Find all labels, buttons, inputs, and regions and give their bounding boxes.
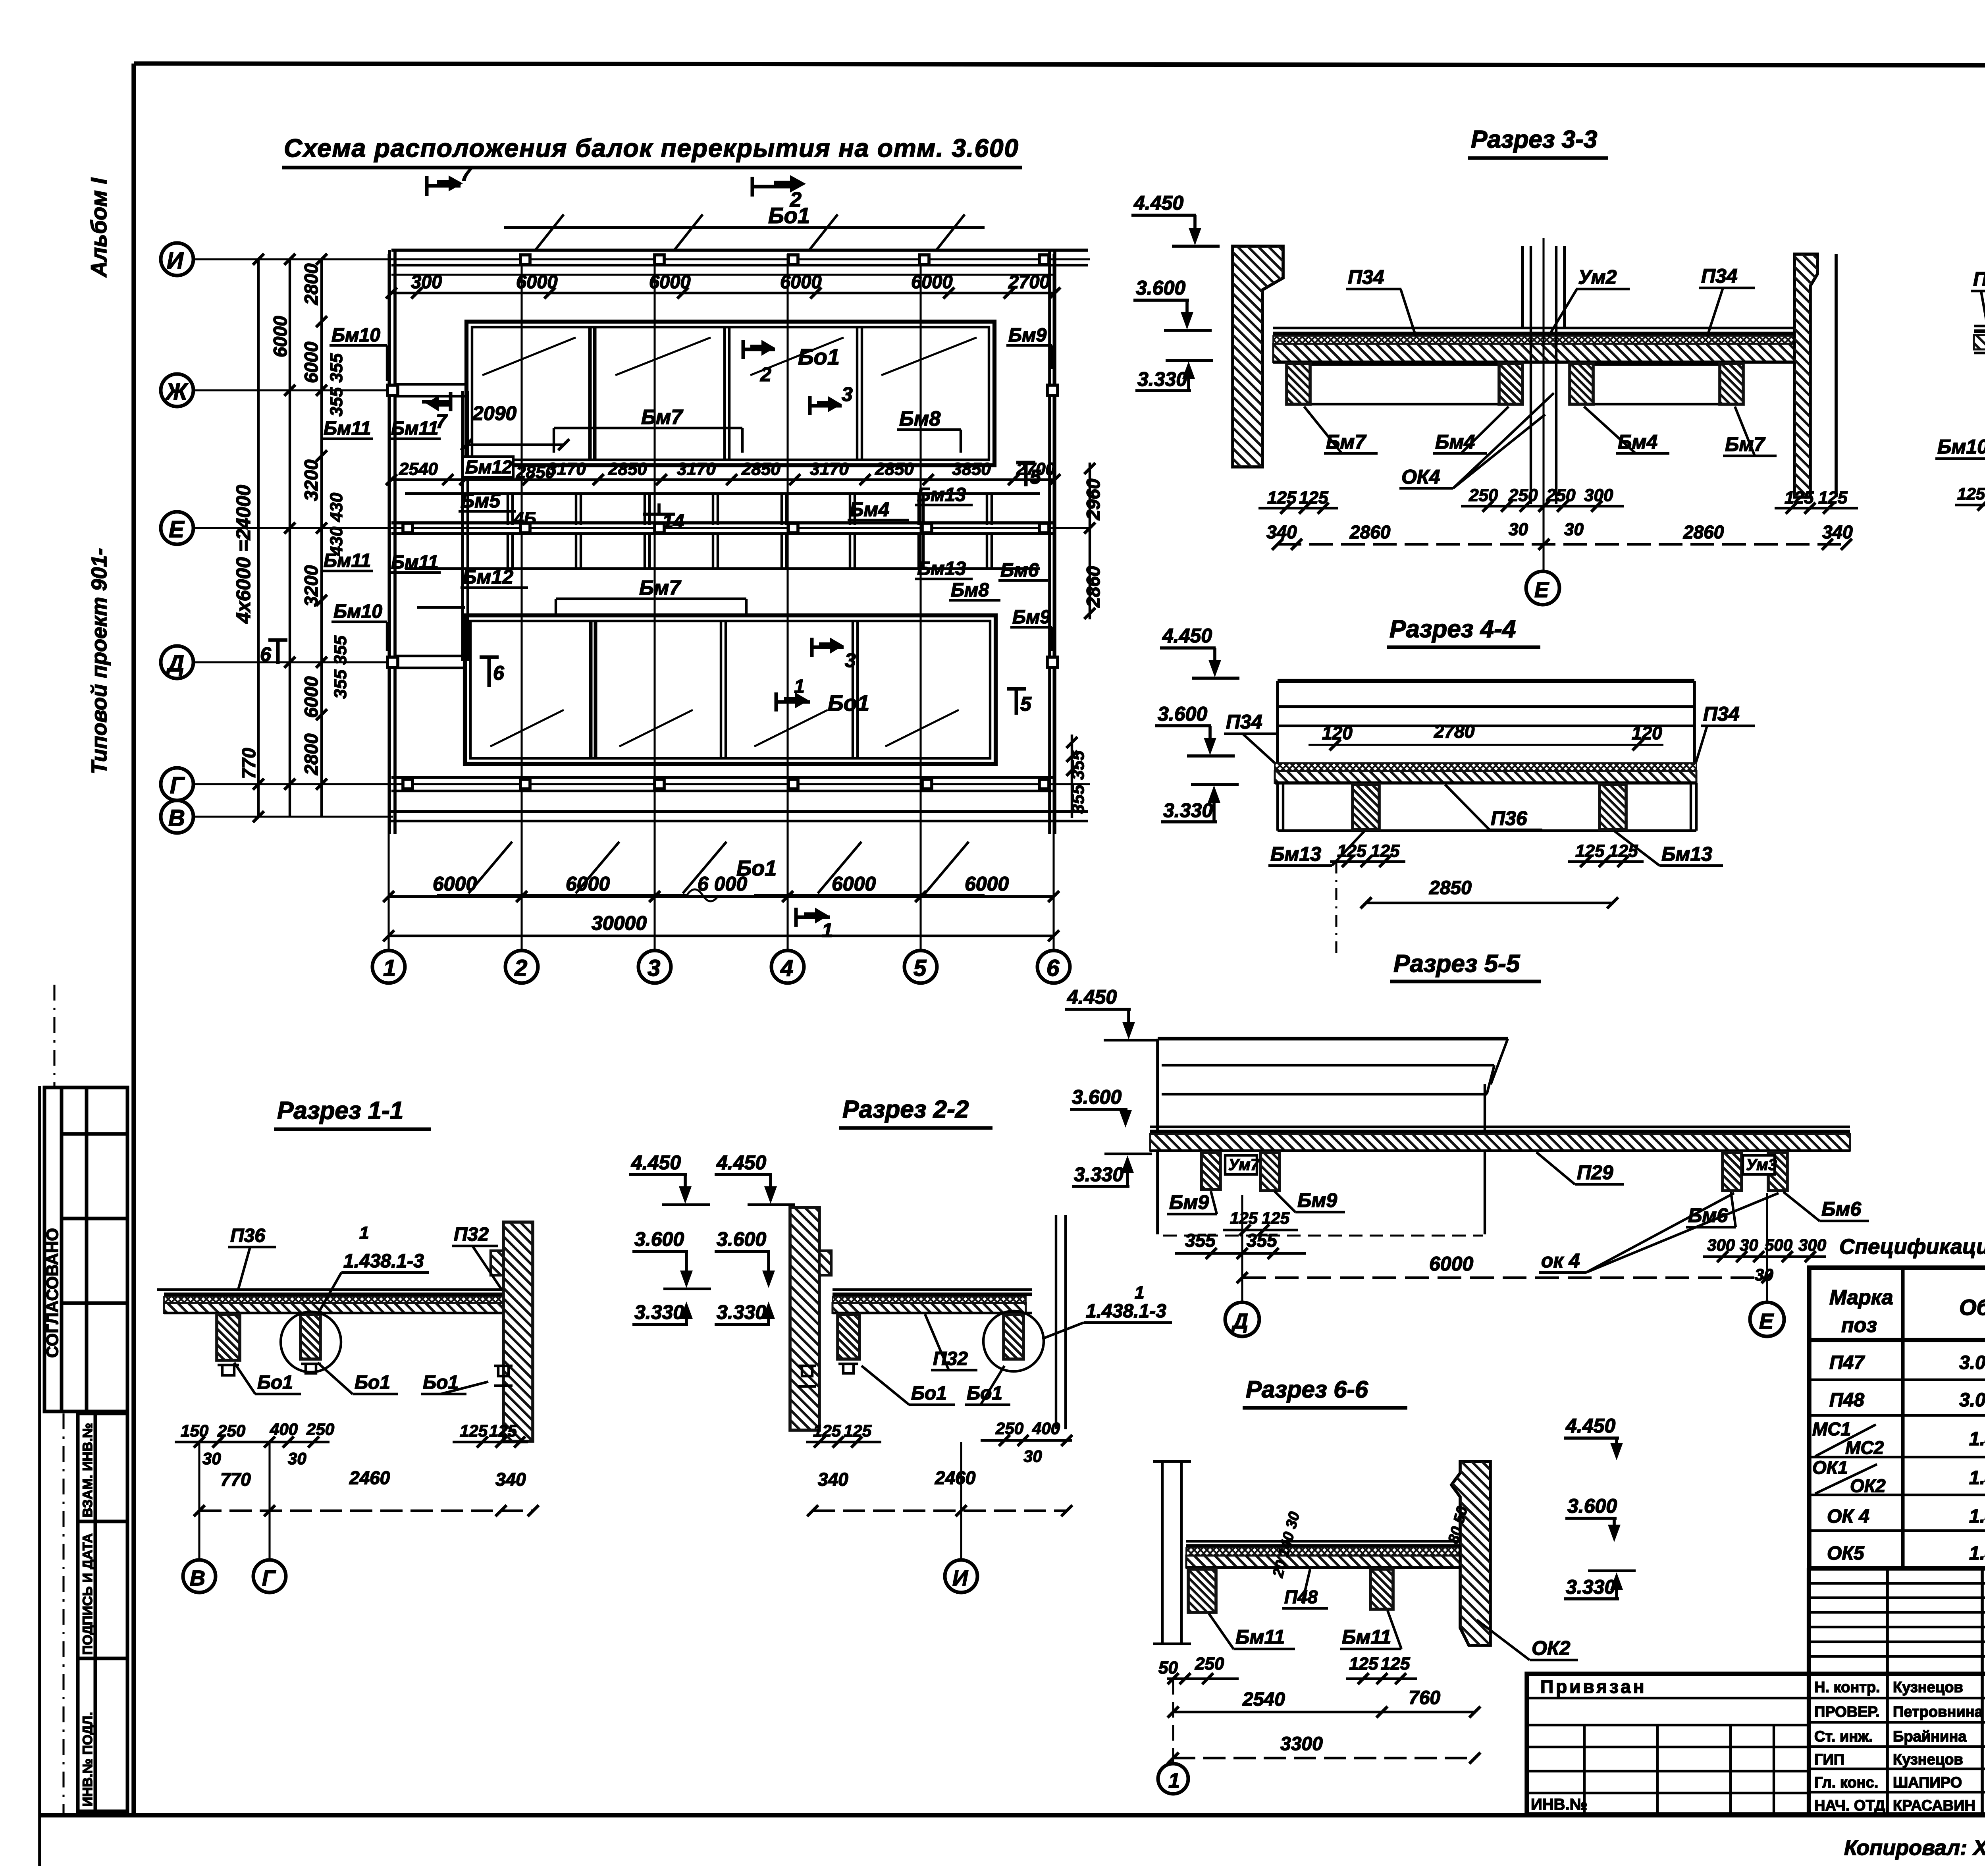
svg-text:6000: 6000 xyxy=(433,873,477,895)
upper hall rectangle xyxy=(466,322,994,465)
svg-text:125: 125 xyxy=(1381,1654,1410,1674)
box СОГЛАСОВАНО xyxy=(44,1087,127,1411)
svg-text:Бм6: Бм6 xyxy=(1000,560,1039,581)
svg-text:2860: 2860 xyxy=(1349,522,1391,542)
svg-text:Разрез 1-1: Разрез 1-1 xyxy=(277,1097,403,1124)
svg-text:4.450: 4.450 xyxy=(1565,1415,1615,1437)
label Бо1 in lower rect with flag 1 xyxy=(776,692,810,711)
bubble В (1-1) xyxy=(198,1442,200,1560)
svg-text:5: 5 xyxy=(1030,466,1041,488)
bubble Д (5-5) xyxy=(1241,1195,1243,1302)
svg-text:120: 120 xyxy=(1632,723,1662,743)
svg-text:340: 340 xyxy=(1822,522,1853,542)
svg-text:1: 1 xyxy=(1135,1283,1144,1302)
svg-text:П34: П34 xyxy=(1701,265,1738,287)
svg-text:Бм9: Бм9 xyxy=(1008,325,1046,346)
svg-text:30: 30 xyxy=(1564,520,1584,539)
svg-text:1.438.1-3: 1.438.1-3 xyxy=(1969,1467,1985,1488)
svg-text:4.450: 4.450 xyxy=(1067,986,1117,1008)
svg-text:Бм9: Бм9 xyxy=(1169,1191,1209,1213)
left wall (2-2) xyxy=(790,1207,819,1430)
beam at wall (2-2) xyxy=(838,1315,860,1359)
svg-text:ПРОВЕР.: ПРОВЕР. xyxy=(1814,1704,1880,1720)
svg-text:125: 125 xyxy=(489,1421,517,1440)
svg-text:НАЧ. ОТД.: НАЧ. ОТД. xyxy=(1814,1797,1889,1814)
label box Ум7 (5-5) xyxy=(1225,1155,1257,1174)
svg-text:300: 300 xyxy=(411,271,442,292)
left beam (1-1) xyxy=(217,1315,240,1360)
svg-text:Бм13: Бм13 xyxy=(917,558,966,579)
svg-text:Разрез 6-6: Разрез 6-6 xyxy=(1246,1376,1368,1403)
left column (6-6) xyxy=(1153,1461,1191,1644)
svg-text:2850: 2850 xyxy=(875,459,914,479)
svg-text:1: 1 xyxy=(383,955,396,981)
svg-text:125: 125 xyxy=(1267,488,1297,507)
svg-text:355 355: 355 355 xyxy=(327,353,346,416)
grid bubble И xyxy=(161,243,193,276)
svg-text:355 355: 355 355 xyxy=(331,635,350,699)
slab (6-6) xyxy=(1186,1541,1469,1568)
svg-text:Бм10: Бм10 xyxy=(1937,436,1985,458)
svg-text:30: 30 xyxy=(1509,520,1528,539)
svg-text:СОГЛАСОВАНО: СОГЛАСОВАНО xyxy=(43,1228,62,1358)
svg-text:2540: 2540 xyxy=(399,459,438,479)
svg-text:Марка: Марка xyxy=(1829,1286,1893,1309)
svg-text:ОК1: ОК1 xyxy=(1812,1457,1848,1478)
axis В xyxy=(193,816,393,817)
svg-text:2860: 2860 xyxy=(1683,522,1724,542)
svg-text:Ст. инж.: Ст. инж. xyxy=(1814,1728,1873,1745)
svg-text:Разрез 3-3: Разрез 3-3 xyxy=(1471,126,1597,153)
section flag 5 right xyxy=(1007,689,1026,715)
svg-text:125: 125 xyxy=(1299,488,1328,507)
svg-text:Петровнина: Петровнина xyxy=(1893,1704,1983,1720)
svg-text:2850: 2850 xyxy=(608,459,647,479)
svg-text:125: 125 xyxy=(1785,488,1814,507)
svg-text:П34: П34 xyxy=(1348,266,1384,288)
svg-text:Бо1: Бо1 xyxy=(911,1383,947,1404)
svg-text:Бо1: Бо1 xyxy=(768,203,810,228)
plan left wall xyxy=(389,250,1055,834)
svg-text:2460: 2460 xyxy=(349,1467,390,1488)
svg-text:340: 340 xyxy=(495,1469,526,1490)
svg-text:3200: 3200 xyxy=(301,459,322,501)
svg-text:ИНВ.№ ПОДЛ.: ИНВ.№ ПОДЛ. xyxy=(80,1712,95,1807)
svg-text:П32: П32 xyxy=(933,1348,968,1369)
svg-text:300: 300 xyxy=(1707,1236,1735,1254)
svg-text:ОК2: ОК2 xyxy=(1850,1475,1886,1496)
svg-text:Бм8: Бм8 xyxy=(951,580,989,601)
svg-text:П48: П48 xyxy=(1829,1390,1864,1411)
svg-text:Бм11: Бм11 xyxy=(1342,1626,1391,1648)
svg-text:6: 6 xyxy=(1046,955,1060,981)
svg-text:125: 125 xyxy=(1370,841,1400,861)
column axis verticals xyxy=(387,254,389,952)
middle dimension row xyxy=(391,478,1056,481)
right wall (1-1) xyxy=(503,1222,533,1441)
svg-text:Бо1: Бо1 xyxy=(828,690,869,715)
svg-text:125: 125 xyxy=(1957,484,1985,503)
svg-text:120: 120 xyxy=(1322,723,1353,743)
Е band column squares xyxy=(403,523,1049,533)
svg-text:300: 300 xyxy=(1798,1236,1826,1254)
svg-text:ОК4: ОК4 xyxy=(1401,466,1440,488)
detail circle with beam (1-1) xyxy=(301,1315,320,1359)
svg-text:2850: 2850 xyxy=(741,459,781,479)
box ВЗАМ ИНВ xyxy=(78,1413,127,1521)
left dimension strings xyxy=(258,259,322,817)
svg-text:30: 30 xyxy=(202,1449,221,1468)
slab (5-5) xyxy=(1150,1127,1850,1151)
beam Бм4 left (3-3) xyxy=(1499,364,1522,404)
axis Е xyxy=(193,527,1090,529)
svg-text:Обозначение: Обозначение xyxy=(1959,1295,1985,1320)
bubble Е (3-3) xyxy=(1526,571,1559,605)
plan right wall xyxy=(1048,250,1051,834)
svg-text:6000: 6000 xyxy=(301,676,322,718)
column bubble 2 xyxy=(505,951,538,983)
svg-text:3.006-2 вып.II-2: 3.006-2 вып.II-2 xyxy=(1959,1352,1985,1373)
svg-text:3: 3 xyxy=(648,955,660,981)
svg-text:2: 2 xyxy=(760,363,771,386)
svg-text:Брайнина: Брайнина xyxy=(1893,1728,1967,1745)
svg-text:Типовой проект 901-: Типовой проект 901- xyxy=(87,548,111,774)
svg-text:Бм4: Бм4 xyxy=(1435,431,1475,453)
svg-text:Е: Е xyxy=(1534,578,1549,602)
diagonals in bays xyxy=(482,337,576,375)
section flag 3 in rect xyxy=(810,396,842,415)
svg-text:4.450: 4.450 xyxy=(631,1151,681,1174)
svg-text:30000: 30000 xyxy=(592,912,647,934)
svg-text:4.450: 4.450 xyxy=(716,1151,766,1174)
svg-text:4: 4 xyxy=(780,955,793,981)
svg-text:П48: П48 xyxy=(1284,1587,1318,1607)
grid bubble Е xyxy=(161,512,193,544)
section flag 7 left xyxy=(422,392,451,411)
svg-text:ШАПИРО: ШАПИРО xyxy=(1893,1774,1962,1791)
grid bubble В xyxy=(161,800,193,833)
svg-text:4.450: 4.450 xyxy=(1162,625,1212,647)
svg-text:ок 4: ок 4 xyxy=(1541,1249,1580,1272)
section flag 3 lower xyxy=(812,638,844,657)
svg-text:П'3: П'3 xyxy=(1973,268,1985,290)
slab (3-3) xyxy=(1273,328,1809,362)
slab (1-1) xyxy=(157,1290,510,1313)
svg-text:Бм10: Бм10 xyxy=(331,325,380,346)
svg-text:125: 125 xyxy=(813,1421,841,1440)
svg-text:2: 2 xyxy=(514,955,527,981)
svg-text:МС2: МС2 xyxy=(1845,1437,1884,1458)
corridor beam at Ж xyxy=(396,384,465,396)
svg-text:Бо1: Бо1 xyxy=(967,1383,1002,1404)
svg-text:770: 770 xyxy=(220,1469,251,1490)
svg-text:2800: 2800 xyxy=(301,263,322,305)
Г band column squares xyxy=(403,779,1049,789)
beam Бм4 right (3-3) xyxy=(1570,364,1593,404)
svg-text:125: 125 xyxy=(460,1421,488,1440)
bubble Е (5-5) xyxy=(1766,1193,1768,1302)
longitudinal beam (4-4) xyxy=(1278,681,1694,763)
beams Бм6 (5-5) xyxy=(1723,1153,1742,1191)
svg-text:6000: 6000 xyxy=(649,271,691,292)
svg-text:Г: Г xyxy=(262,1566,276,1590)
box ПОДПИСЬ И ДАТА xyxy=(78,1521,127,1658)
svg-text:3.330: 3.330 xyxy=(634,1301,684,1323)
beam lattice upper (between mid dims and Е) xyxy=(405,494,1040,525)
svg-text:770: 770 xyxy=(238,748,259,779)
svg-text:250: 250 xyxy=(1195,1654,1224,1674)
svg-text:3.330: 3.330 xyxy=(1137,368,1187,390)
svg-text:3170: 3170 xyxy=(547,459,586,479)
svg-text:Бм11: Бм11 xyxy=(391,418,438,439)
svg-text:Бм7: Бм7 xyxy=(639,576,681,600)
И band beam Бо1 xyxy=(391,250,1088,275)
bottom dim row 30000 xyxy=(389,935,1054,937)
svg-text:ОК2: ОК2 xyxy=(1532,1637,1571,1659)
svg-text:3170: 3170 xyxy=(810,459,849,479)
corridor beam at Д xyxy=(396,656,465,668)
svg-text:3.330: 3.330 xyxy=(1163,799,1213,821)
svg-text:6000: 6000 xyxy=(911,271,953,292)
svg-text:6 000: 6 000 xyxy=(698,873,747,895)
svg-text:2090: 2090 xyxy=(472,402,516,424)
svg-text:6000: 6000 xyxy=(832,873,876,895)
И band column squares xyxy=(520,255,1049,264)
svg-text:3.600: 3.600 xyxy=(1136,277,1185,299)
section flag 2 top xyxy=(752,175,806,197)
section flag 1 bottom xyxy=(796,908,830,927)
svg-text:Бм6: Бм6 xyxy=(1821,1198,1862,1220)
svg-text:430 430: 430 430 xyxy=(327,492,346,556)
svg-text:Ум3: Ум3 xyxy=(1746,1156,1777,1174)
svg-text:Гл. конс.: Гл. конс. xyxy=(1814,1774,1878,1791)
svg-text:Схема расположения балок перек: Схема расположения балок перекрытия на о… xyxy=(284,134,1018,162)
svg-text:400: 400 xyxy=(1032,1419,1060,1438)
wall column squares xyxy=(387,385,1058,667)
svg-text:1.438.1-3: 1.438.1-3 xyxy=(1969,1543,1985,1564)
svg-text:Альбом I: Альбом I xyxy=(86,177,111,278)
svg-text:Д: Д xyxy=(166,651,184,677)
axis Г xyxy=(193,783,1090,785)
svg-text:1.438.1-3: 1.438.1-3 xyxy=(1969,1429,1985,1450)
svg-text:Привязан: Привязан xyxy=(1540,1676,1647,1697)
svg-text:30: 30 xyxy=(1740,1236,1758,1254)
svg-text:ИНВ.№: ИНВ.№ xyxy=(1531,1796,1587,1813)
svg-text:6000: 6000 xyxy=(516,271,558,292)
svg-text:3170: 3170 xyxy=(677,459,716,479)
center column (3-3) xyxy=(1522,238,1565,571)
svg-text:Разрез 4-4: Разрез 4-4 xyxy=(1389,615,1516,643)
top dimension row xyxy=(391,292,1056,294)
svg-text:Кузнецов: Кузнецов xyxy=(1893,1751,1963,1768)
svg-text:Бм4: Бм4 xyxy=(850,498,889,521)
beam Бм7 right (3-3) xyxy=(1720,364,1743,404)
section flag 2 in rect xyxy=(743,340,775,359)
under-slab outline (4-4) xyxy=(1278,783,1696,831)
svg-text:Копировал: Хюппенен: Копировал: Хюппенен xyxy=(1844,1836,1985,1860)
svg-text:Бм9: Бм9 xyxy=(1012,607,1050,628)
Бо1 line above И with slashes xyxy=(504,214,985,249)
beams Бм11 (6-6) xyxy=(1188,1569,1216,1612)
svg-text:760: 760 xyxy=(1409,1687,1440,1708)
svg-text:Бм13: Бм13 xyxy=(1270,843,1321,865)
svg-text:ПОДПИСЬ И ДАТА: ПОДПИСЬ И ДАТА xyxy=(80,1533,95,1655)
label 14 center with flag xyxy=(643,503,675,514)
svg-text:3.600: 3.600 xyxy=(1072,1086,1122,1108)
svg-text:6: 6 xyxy=(260,643,272,665)
beam Бм13 right (4-4) xyxy=(1600,785,1626,829)
svg-text:И: И xyxy=(167,248,184,274)
svg-text:3.600: 3.600 xyxy=(1158,703,1207,725)
bottom dim row 6000s xyxy=(389,895,1054,898)
svg-text:2800: 2800 xyxy=(301,733,322,775)
svg-text:В: В xyxy=(190,1566,205,1590)
column bubble 1 xyxy=(372,951,405,983)
section flag 6 in rect xyxy=(480,657,499,687)
svg-text:1.438.1-3: 1.438.1-3 xyxy=(1969,1506,1985,1527)
bubble И (2-2) xyxy=(960,1442,962,1560)
lower hall rectangle xyxy=(465,615,996,764)
column bubble 5 xyxy=(904,951,937,983)
svg-text:П29: П29 xyxy=(1577,1161,1613,1184)
svg-text:Бо1: Бо1 xyxy=(257,1372,293,1393)
bubble Г (1-1) xyxy=(268,1442,270,1560)
svg-text:2860: 2860 xyxy=(1083,566,1104,608)
svg-text:2700: 2700 xyxy=(1008,271,1050,292)
section flag 5 upper right xyxy=(1016,463,1035,486)
svg-text:125: 125 xyxy=(1262,1209,1290,1227)
column bubble 6 xyxy=(1037,951,1070,983)
svg-text:6000: 6000 xyxy=(270,316,291,357)
svg-text:2: 2 xyxy=(790,188,802,211)
svg-text:Ум7: Ум7 xyxy=(1228,1156,1260,1174)
grid bubble Д xyxy=(161,646,193,679)
slab (4-4) xyxy=(1275,763,1696,771)
beam opening row (3-3) xyxy=(1310,364,1720,404)
Бо1 band below В with slashes xyxy=(437,842,985,901)
svg-text:1.438.1-3: 1.438.1-3 xyxy=(1086,1301,1166,1322)
svg-text:355: 355 xyxy=(1185,1230,1216,1251)
svg-text:ВЗАМ. ИНВ.№: ВЗАМ. ИНВ.№ xyxy=(80,1423,95,1517)
svg-text:Кузнецов: Кузнецов xyxy=(1893,1679,1963,1696)
svg-text:3850: 3850 xyxy=(952,459,991,479)
svg-text:П36: П36 xyxy=(230,1225,265,1246)
axis И xyxy=(193,258,1090,260)
box ИНВ № ПОДЛ xyxy=(78,1658,127,1811)
svg-text:30: 30 xyxy=(288,1449,306,1468)
right thin wall (2-2) xyxy=(1056,1215,1066,1429)
svg-text:Бм13: Бм13 xyxy=(1661,843,1712,865)
svg-text:250: 250 xyxy=(306,1420,334,1438)
spec table grid xyxy=(1809,1268,1985,1568)
slab (2-2) xyxy=(833,1290,1032,1313)
svg-text:Разрез 2-2: Разрез 2-2 xyxy=(842,1096,969,1123)
svg-text:6000: 6000 xyxy=(301,341,322,383)
svg-text:4х6000 =24000: 4х6000 =24000 xyxy=(232,485,254,624)
Е band xyxy=(391,523,1055,534)
svg-text:7: 7 xyxy=(461,162,473,185)
svg-text:Бм11: Бм11 xyxy=(324,418,371,439)
svg-text:Бм11: Бм11 xyxy=(324,550,371,571)
svg-text:4.450: 4.450 xyxy=(1133,192,1183,214)
svg-text:Бо1: Бо1 xyxy=(355,1372,390,1393)
svg-text:250: 250 xyxy=(1546,486,1576,505)
svg-text:П47: П47 xyxy=(1829,1352,1865,1373)
svg-text:МС1: МС1 xyxy=(1812,1419,1851,1439)
svg-text:3200: 3200 xyxy=(301,565,322,607)
portal beam (5-5) xyxy=(1158,1039,1508,1236)
svg-text:125: 125 xyxy=(1609,841,1638,861)
svg-text:125: 125 xyxy=(1230,1209,1258,1227)
svg-text:3: 3 xyxy=(842,383,853,405)
axis Ж xyxy=(193,389,395,391)
svg-text:Д: Д xyxy=(1231,1309,1248,1333)
svg-text:Бм5: Бм5 xyxy=(461,490,501,512)
svg-text:Бм10: Бм10 xyxy=(333,601,382,622)
svg-text:1: 1 xyxy=(359,1223,369,1243)
svg-text:125: 125 xyxy=(844,1421,872,1440)
svg-text:3.600: 3.600 xyxy=(1567,1495,1617,1517)
svg-text:Бм12: Бм12 xyxy=(463,566,513,588)
svg-text:1: 1 xyxy=(794,676,805,697)
svg-text:Спецификация элементов к схеме: Спецификация элементов к схеме расположе… xyxy=(1839,1235,1985,1259)
svg-text:355: 355 xyxy=(1247,1230,1278,1251)
svg-text:340: 340 xyxy=(818,1469,848,1490)
column bubble 3 xyxy=(638,951,671,983)
svg-text:В: В xyxy=(168,805,185,831)
svg-text:Бм8: Бм8 xyxy=(899,407,940,430)
svg-text:П34: П34 xyxy=(1226,711,1262,733)
svg-text:1.438.1-3: 1.438.1-3 xyxy=(343,1251,424,1272)
svg-text:1: 1 xyxy=(1168,1769,1180,1792)
bubble 1 (6-6) xyxy=(1172,1679,1174,1763)
svg-text:поз: поз xyxy=(1841,1314,1877,1337)
svg-text:3.330: 3.330 xyxy=(1074,1163,1124,1186)
beam lattice lower (between Е and lower rect) xyxy=(405,534,1040,607)
svg-text:И: И xyxy=(952,1566,968,1590)
svg-text:500: 500 xyxy=(1765,1236,1792,1254)
svg-text:6000: 6000 xyxy=(1429,1253,1473,1275)
svg-text:Е: Е xyxy=(1759,1309,1774,1333)
beams Бм9 (5-5) xyxy=(1201,1153,1220,1190)
svg-text:Н. контр.: Н. контр. xyxy=(1814,1679,1880,1696)
svg-text:2540: 2540 xyxy=(1242,1689,1285,1710)
svg-text:Бм13: Бм13 xyxy=(917,484,966,505)
grid bubble Ж xyxy=(161,374,193,407)
svg-text:1: 1 xyxy=(822,919,833,941)
svg-text:Бм12: Бм12 xyxy=(465,457,512,477)
detail circle with beam (2-2) xyxy=(1004,1315,1023,1359)
svg-text:П36: П36 xyxy=(1491,807,1528,829)
svg-text:3.600: 3.600 xyxy=(634,1228,684,1250)
label box Ум3 (5-5) xyxy=(1743,1155,1775,1174)
svg-text:5: 5 xyxy=(1020,693,1032,715)
svg-text:Разрез 5-5: Разрез 5-5 xyxy=(1393,950,1521,978)
svg-text:Ж: Ж xyxy=(165,379,189,405)
section flag 6 left xyxy=(268,640,287,664)
svg-text:2960: 2960 xyxy=(1083,478,1104,521)
svg-text:ОК 4: ОК 4 xyxy=(1827,1506,1869,1527)
svg-text:6000: 6000 xyxy=(780,271,822,292)
main block frame xyxy=(1527,1674,1985,1814)
corridor inner wall xyxy=(463,391,468,661)
svg-text:3.330: 3.330 xyxy=(1566,1576,1615,1598)
svg-text:П32: П32 xyxy=(454,1224,489,1245)
svg-text:2780: 2780 xyxy=(1434,721,1475,742)
svg-text:Бм9: Бм9 xyxy=(1297,1189,1337,1211)
svg-text:340: 340 xyxy=(1266,522,1297,542)
svg-text:Е: Е xyxy=(169,517,185,542)
